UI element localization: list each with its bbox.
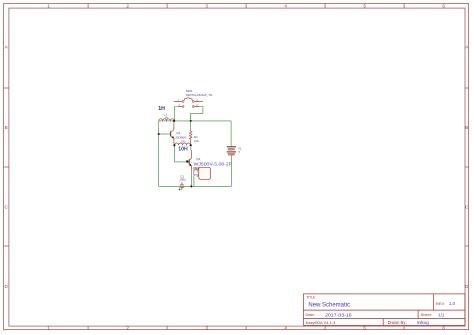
wire top rail bbox=[159, 120, 231, 122]
resistor R1 bbox=[189, 128, 192, 145]
svg-text:100u: 100u bbox=[179, 178, 186, 182]
wire Q1 base bbox=[159, 133, 167, 135]
wire L2 right to Q2 collector bbox=[190, 145, 192, 150]
svg-text:2: 2 bbox=[126, 325, 129, 330]
junction L2 left bbox=[173, 144, 175, 146]
wire rail to R1 top bbox=[190, 121, 192, 128]
zone letters left bbox=[5, 45, 9, 290]
wire L2 left to Q2 base bbox=[174, 145, 186, 162]
svg-text:mikug: mikug bbox=[417, 320, 430, 325]
svg-text:SWITCH-6x6x5_TH: SWITCH-6x6x5_TH bbox=[186, 93, 213, 97]
zone numbers top bbox=[47, 3, 445, 8]
connector P1 body bbox=[199, 167, 211, 179]
svg-text:5: 5 bbox=[363, 3, 366, 8]
svg-text:5: 5 bbox=[363, 325, 366, 330]
svg-text:3: 3 bbox=[205, 3, 208, 8]
svg-text:2N3904: 2N3904 bbox=[175, 135, 186, 139]
wire switch pin2 to rail bbox=[175, 107, 179, 121]
svg-text:10k: 10k bbox=[194, 139, 199, 143]
junction rail/L1/switch-left bbox=[173, 120, 175, 122]
svg-text:1: 1 bbox=[197, 169, 199, 173]
battery V1 bbox=[227, 147, 236, 155]
svg-text:New Schematic: New Schematic bbox=[308, 302, 350, 308]
svg-text:Sheet:: Sheet: bbox=[421, 312, 432, 317]
wire Q2 emitter to bottom rail bbox=[190, 170, 192, 187]
svg-text:REV:: REV: bbox=[436, 301, 445, 306]
svg-text:1.0: 1.0 bbox=[449, 301, 456, 306]
capacitor C1 plus mark bbox=[179, 188, 181, 190]
wire Q1 collector up bbox=[173, 121, 175, 123]
transistor Q2 bbox=[187, 150, 192, 170]
junction Q1 base bbox=[158, 133, 160, 135]
svg-text:EasyEDA V4.1.3: EasyEDA V4.1.3 bbox=[306, 320, 336, 325]
wire bottom rail bbox=[159, 185, 232, 187]
svg-text:1: 1 bbox=[47, 3, 50, 8]
Q2 emitter arrow bbox=[189, 164, 192, 166]
junction rail/R1/switch-right bbox=[190, 120, 192, 122]
capacitor C1 bbox=[180, 182, 185, 190]
wire Q1 emitter down bbox=[173, 143, 175, 145]
switch SW1 contact circles bbox=[182, 101, 194, 108]
svg-text:2017-03-16: 2017-03-16 bbox=[325, 312, 352, 318]
zone divider ticks left/right bbox=[4, 88, 469, 246]
svg-text:B: B bbox=[5, 125, 8, 130]
zone numbers bottom bbox=[47, 325, 445, 330]
svg-text:Drawn By:: Drawn By: bbox=[388, 320, 407, 325]
junction bottom rail bbox=[190, 185, 192, 187]
switch SW1 leads bbox=[174, 102, 203, 107]
svg-text:2: 2 bbox=[126, 3, 129, 8]
zone divider ticks top/bottom bbox=[88, 4, 404, 330]
svg-text:10H: 10H bbox=[181, 140, 186, 144]
connector P1 pins bbox=[194, 170, 199, 175]
svg-text:4: 4 bbox=[284, 3, 287, 8]
transistor Q1 bbox=[167, 122, 174, 143]
svg-text:1H: 1H bbox=[164, 116, 168, 120]
svg-text:1: 1 bbox=[47, 325, 50, 330]
inductor L1 bbox=[159, 119, 174, 121]
switch SW1 actuator bbox=[184, 98, 192, 100]
svg-text:Date:: Date: bbox=[306, 312, 315, 317]
zone letters right bbox=[465, 45, 469, 290]
wire connector pin2 to bottom rail bbox=[193, 175, 195, 187]
wire battery top lead bbox=[230, 121, 232, 146]
svg-text:3: 3 bbox=[205, 325, 208, 330]
svg-text:1H: 1H bbox=[158, 106, 165, 112]
junction Q2 base wire bbox=[186, 160, 188, 162]
svg-text:Q2: Q2 bbox=[196, 157, 200, 161]
svg-text:6: 6 bbox=[442, 3, 445, 8]
svg-text:WJ500V-5.08-2P: WJ500V-5.08-2P bbox=[194, 162, 233, 167]
svg-text:10H: 10H bbox=[178, 146, 188, 152]
inductor L2 bbox=[175, 143, 191, 145]
svg-text:B: B bbox=[465, 125, 468, 130]
svg-text:2: 2 bbox=[197, 174, 199, 178]
svg-text:6: 6 bbox=[442, 325, 445, 330]
Q1 emitter arrow bbox=[171, 136, 174, 138]
junction L2 right bbox=[190, 144, 192, 146]
svg-text:4: 4 bbox=[284, 325, 287, 330]
title block box bbox=[303, 294, 465, 326]
wire switch pin4 to rail bbox=[191, 107, 203, 121]
svg-text:TITLE:: TITLE: bbox=[306, 295, 316, 299]
wire battery bottom lead bbox=[230, 155, 232, 187]
svg-text:1/1: 1/1 bbox=[438, 312, 445, 317]
wire left vertical bbox=[158, 121, 160, 186]
